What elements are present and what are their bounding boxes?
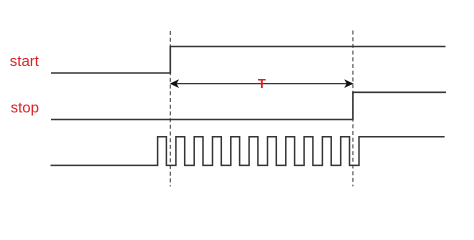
arrowhead right (345, 80, 353, 87)
wire dimension arrow T shaft (177, 83, 347, 85)
node t2 (dashed cursor at stop edge) (352, 31, 354, 187)
wire start signal waveform (51, 47, 446, 74)
arrowhead left (170, 80, 178, 87)
wire clock gated pulse train (51, 137, 445, 166)
svg-text:T: T (258, 76, 266, 91)
svg-text:stop: stop (11, 99, 39, 116)
wire stop signal waveform (51, 92, 446, 119)
svg-text:start: start (10, 53, 40, 70)
node t1 (dashed cursor at start edge) (169, 31, 171, 186)
